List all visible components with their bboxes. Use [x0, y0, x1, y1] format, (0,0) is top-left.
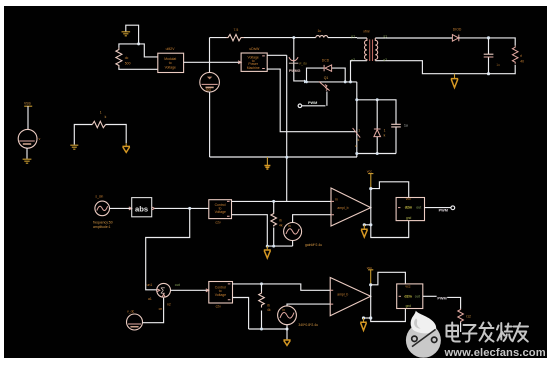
- source V2 far left: [18, 102, 40, 164]
- svg-text:uM2V: uM2V: [166, 47, 176, 51]
- freewheel diode DCD loop: [307, 68, 346, 82]
- resistor RP: [116, 48, 122, 68]
- ground stub below return bus: [264, 157, 270, 169]
- sine source VSIN1: [93, 194, 113, 228]
- secondary bottom return wire: [385, 61, 515, 74]
- svg-text:uDivW: uDivW: [249, 47, 260, 51]
- svg-text:vcc: vcc: [405, 284, 410, 288]
- node junction feedback tap: [188, 207, 191, 210]
- wire source VS top stem: [209, 38, 211, 73]
- node junction output bottom: [487, 72, 490, 75]
- svg-text:www.elecfans.com: www.elecfans.com: [444, 347, 546, 359]
- svg-text:u: u: [355, 144, 357, 148]
- wire U1 out to U2 in: [184, 61, 242, 63]
- svg-text:vi_du: vi_du: [299, 62, 307, 66]
- wire VSIN2 top to comparator minus: [293, 215, 331, 223]
- svg-text:DIOD: DIOD: [453, 28, 462, 32]
- resistor R2 subcircuit: [70, 111, 130, 153]
- comparator A2: [330, 278, 371, 316]
- current probe hook: [289, 57, 298, 61]
- svg-text:cn: cn: [159, 307, 163, 311]
- row1 ground bus: [267, 245, 292, 247]
- vcc stub row1: [367, 169, 374, 188]
- svg-text:r12: r12: [466, 315, 471, 319]
- svg-text:gainM*2.4u: gainM*2.4u: [305, 243, 322, 247]
- block U2 Voltage-to-Power-Machine: [241, 47, 267, 71]
- wire diode to output node: [459, 38, 515, 46]
- vcc loop to d2m1 top: [371, 182, 409, 198]
- gnd loop to d2m1 bottom: [371, 221, 409, 238]
- wire abs to c2v1: [155, 207, 209, 209]
- svg-text:un1: un1: [147, 283, 153, 287]
- wire c2v2 bottom out down to gnd bus2: [233, 298, 249, 330]
- ground 0-node row1: [264, 246, 271, 258]
- switch bus: [306, 81, 357, 83]
- load resistor RL: [512, 46, 524, 64]
- long feedback vertical wire: [286, 55, 288, 201]
- watermark flame leaf: [411, 311, 437, 334]
- ground arrow row2 comparator: [360, 318, 371, 330]
- wire V3 to summer bottom: [143, 298, 164, 323]
- svg-text:ampl_b: ampl_b: [337, 292, 348, 296]
- svg-text:abs: abs: [135, 204, 148, 213]
- transformer T1: [351, 29, 387, 62]
- svg-text:7.5: 7.5: [234, 28, 239, 32]
- current probe vertical wire: [294, 38, 306, 81]
- svg-text:v: v: [39, 137, 41, 141]
- wire d2m2 out PWM: [423, 295, 437, 297]
- wire L1 to transformer p1: [328, 37, 357, 39]
- resistor R1 7.5: [226, 34, 244, 40]
- ground T row2: [283, 340, 290, 345]
- wire c2v1 top out to comparator: [232, 200, 332, 202]
- block c2v2 Control-to-Voltage: [209, 282, 233, 309]
- PWM terminal row1: [451, 206, 455, 210]
- wire R1 to L1: [244, 37, 316, 39]
- wire summer out to c2v2: [171, 289, 209, 291]
- svg-text:frequency:50: frequency:50: [93, 220, 113, 224]
- wire PWM to resistor R12: [447, 297, 460, 309]
- svg-text:k: k: [358, 138, 360, 142]
- watermark chinese text: [447, 323, 529, 342]
- svg-text:340*0.8*2.4u: 340*0.8*2.4u: [298, 323, 318, 327]
- vcc loop to d2m2 top: [371, 272, 406, 285]
- PWM gate terminal: [298, 101, 325, 107]
- node junction on return bus: [285, 156, 288, 159]
- sine source VSIN2: [284, 223, 323, 248]
- svg-text:vcc: vcc: [367, 169, 372, 173]
- svg-text:1u: 1u: [404, 123, 408, 127]
- svg-text:gnd: gnd: [406, 216, 412, 220]
- svg-text:Voltage: Voltage: [215, 210, 226, 214]
- svg-text:rb: rb: [267, 303, 270, 307]
- block d2m2: [397, 284, 423, 309]
- svg-text:d2m: d2m: [404, 294, 411, 298]
- svg-text:k: k: [105, 115, 107, 119]
- gnd loop to d2m2 bottom: [371, 309, 406, 322]
- wire RP bottom to box U1: [119, 68, 158, 70]
- svg-text:s_sin: s_sin: [95, 194, 103, 198]
- output capacitor C2: [484, 38, 500, 74]
- svg-text:1: 1: [100, 111, 102, 115]
- sine source VSIN3: [278, 306, 319, 327]
- wire U2 bottom out down to switch source: [267, 69, 355, 132]
- wire VSIN1 to abs: [110, 207, 132, 209]
- snubber bottom rail: [357, 154, 396, 158]
- wire VSIN2 bottom to bus: [292, 241, 294, 247]
- supply rail through apex row2: [370, 285, 372, 318]
- wire VS1 bottom to return bus: [209, 92, 211, 157]
- wire c2v1 bottom out down to gnd bus: [232, 215, 268, 246]
- ground G1 top-left: [122, 25, 139, 42]
- svg-text:out: out: [415, 294, 420, 298]
- wire tap down to summer: [146, 208, 190, 289]
- svg-text:PWM: PWM: [439, 208, 448, 212]
- svg-text:1u: 1u: [496, 63, 500, 67]
- inductor L1 1u: [316, 36, 328, 38]
- svg-text:xfmr: xfmr: [363, 29, 370, 33]
- svg-text:Voltage: Voltage: [215, 293, 226, 297]
- svg-text:to: to: [169, 61, 172, 65]
- watermark elecfans logo disc: [406, 311, 441, 358]
- svg-text:vcc: vcc: [367, 266, 372, 270]
- svg-text:Σ: Σ: [160, 287, 165, 296]
- rectifier diode DIOD: [452, 28, 461, 42]
- vcc stub row2: [367, 266, 374, 285]
- node junction output top: [487, 36, 490, 39]
- zener diode D2: [374, 100, 386, 154]
- resistor R3: [271, 201, 283, 246]
- block U1 Modulat-to-Voltage: [158, 47, 184, 73]
- svg-text:p1: p1: [351, 34, 355, 38]
- svg-text:d2m: d2m: [405, 206, 412, 210]
- snubber switch D1: [353, 128, 361, 148]
- svg-text:in: in: [335, 197, 338, 201]
- svg-text:amplitude:1: amplitude:1: [93, 225, 111, 229]
- wire J1 to resistor RP top: [119, 44, 139, 48]
- svg-text:1u: 1u: [318, 29, 322, 33]
- switch Q1 blade: [319, 82, 330, 91]
- svg-text:300: 300: [206, 88, 212, 92]
- wire VSIN3 bottom to T ground: [286, 325, 288, 340]
- svg-text:dc: dc: [125, 56, 129, 60]
- diode DCD: [322, 58, 332, 71]
- row2 ground bus: [249, 328, 287, 330]
- wire J1 to box U1 top pin: [139, 44, 158, 57]
- svg-text:500: 500: [125, 61, 131, 65]
- svg-text:Voltage: Voltage: [165, 66, 176, 70]
- svg-text:c2v: c2v: [216, 305, 222, 309]
- node junction R3 top: [272, 200, 275, 203]
- svg-text:PWM: PWM: [437, 297, 446, 301]
- wire top bus to R1: [210, 37, 227, 39]
- summer S1: [147, 283, 180, 311]
- wire U2 top out to feedback vertical: [267, 54, 287, 56]
- snubber capacitor C1: [391, 123, 408, 153]
- svg-text:v_dc: v_dc: [127, 309, 134, 313]
- svg-text:a1: a1: [148, 297, 152, 301]
- svg-text:n2: n2: [167, 303, 171, 307]
- ground 0-node secondary: [451, 74, 458, 88]
- wire p2 down to switch bus: [351, 61, 358, 82]
- svg-text:c2v: c2v: [215, 221, 221, 225]
- svg-text:out: out: [416, 206, 421, 210]
- svg-text:4k: 4k: [279, 224, 283, 228]
- svg-text:rb: rb: [279, 219, 282, 223]
- svg-text:VSS: VSS: [24, 102, 32, 106]
- svg-text:gnd: gnd: [406, 304, 412, 308]
- svg-text:DCD: DCD: [322, 58, 330, 62]
- snubber top rail: [357, 100, 396, 124]
- svg-text:PWMG: PWMG: [289, 69, 301, 73]
- wire d2m1 out to PWM terminal: [425, 207, 452, 209]
- resistor R12: [458, 309, 471, 323]
- comparator A1: [331, 188, 371, 226]
- svg-text:1: 1: [358, 128, 360, 132]
- svg-text:k: k: [384, 133, 386, 137]
- resistor R4: [259, 284, 271, 329]
- block d2m1: [396, 197, 424, 221]
- svg-text:vcc: vcc: [406, 197, 411, 201]
- wire VSIN3 top to comparator2 minus: [287, 304, 330, 306]
- wire R12 bottom: [460, 323, 462, 333]
- node junction J1: [137, 42, 140, 45]
- node junction top: [292, 36, 295, 39]
- watermark circuit trace and pads: [412, 329, 436, 346]
- svg-text:Q1: Q1: [324, 76, 329, 80]
- svg-text:PWM: PWM: [308, 101, 317, 105]
- wire bus corner down to snubber rail: [356, 82, 358, 154]
- svg-text:rl: rl: [520, 54, 522, 58]
- svg-text:Machine: Machine: [247, 66, 260, 70]
- supply rail through apex row1: [370, 189, 372, 225]
- bottom return bus: [210, 156, 357, 158]
- svg-text:1: 1: [384, 129, 386, 133]
- svg-text:out: out: [175, 283, 180, 287]
- ground arrow row1 comparator: [361, 225, 371, 237]
- secondary wire s1 to diode: [385, 37, 452, 39]
- source VS1 circle: [200, 72, 220, 92]
- svg-text:ampl_b: ampl_b: [337, 206, 348, 210]
- abs block: [132, 198, 155, 217]
- svg-text:in: in: [282, 308, 285, 312]
- block c2v1 Control-to-Voltage: [209, 200, 232, 225]
- svg-text:40: 40: [520, 60, 524, 64]
- wire c2v2 top out to comparator2: [233, 284, 331, 290]
- dc source V3: [127, 309, 143, 330]
- switch Q1 gate bar: [325, 85, 328, 91]
- node start of switch bus: [304, 80, 307, 84]
- svg-text:in: in: [288, 224, 291, 228]
- node junction R4 top: [260, 282, 263, 285]
- svg-text:4k: 4k: [267, 308, 271, 312]
